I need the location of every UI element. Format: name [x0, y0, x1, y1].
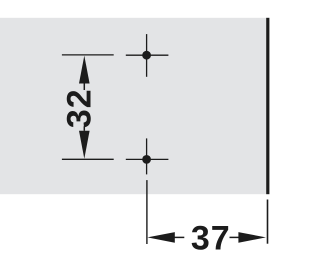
dimension 32 arrow down — [79, 126, 90, 158]
dimension 32 arrow up — [79, 56, 90, 90]
extension line bottom (dim 32) — [62, 158, 114, 160]
panel (cabinet side, cross-section) — [0, 18, 266, 194]
extension line at panel edge (dim 37 right) — [267, 200, 269, 244]
svg-text:37: 37 — [191, 220, 231, 258]
hole H2 (bottom) center mark — [126, 138, 169, 174]
dimension 37 arrow left — [147, 232, 174, 243]
dimension 37 line left segment — [175, 236, 185, 238]
extension line top (dim 32) — [62, 54, 114, 56]
hole H1 (top) center mark — [126, 34, 169, 77]
dimension 37 line right segment — [230, 236, 241, 238]
dimension 37 arrow right — [238, 232, 266, 243]
dimension 37 label — [191, 220, 231, 258]
panel front edge — [266, 18, 269, 194]
extension line below hole H2 (dim 37 left) — [146, 180, 148, 244]
svg-text:32: 32 — [61, 88, 99, 128]
dimension 32 label — [61, 88, 99, 128]
